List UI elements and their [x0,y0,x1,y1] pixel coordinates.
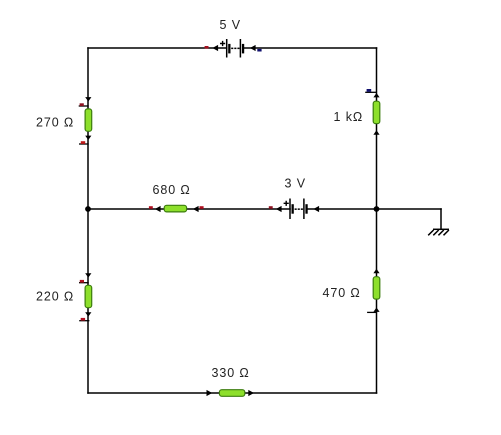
current arrow R220 top (down) [85,273,91,277]
wire left middle [87,131,89,286]
pin tick R270 bottom [79,143,89,145]
probe mark blue R1k top [367,89,372,92]
current arrow R270 bottom (down) [85,136,91,140]
probe mark red top wire [205,46,209,49]
wire ground stub [440,209,442,229]
current arrow top-right (left) [250,45,256,51]
resistor 220 ohm [85,285,92,307]
current arrow 680 right (left) [193,206,199,212]
wire top-left segment [88,47,227,49]
svg-text:5 V: 5 V [220,18,241,32]
current arrow 330 right (right) [248,390,254,396]
current arrow 330 left (right) [207,390,213,396]
ground [428,229,449,235]
svg-text:1 kΩ: 1 kΩ [334,110,364,124]
resistor 470 ohm [373,277,380,299]
node A junction left (88,209) [85,206,91,212]
resistor 1k ohm [373,101,380,123]
current arrow 3V left (left) [276,206,282,212]
resistor 680 ohm [164,205,186,212]
probe mark red R220 bottom [81,318,85,321]
current arrow R220 bottom (down) [85,312,91,316]
svg-text:680 Ω: 680 Ω [153,183,191,197]
current arrow R470 top (up) [373,269,379,273]
probe mark red R220 top [80,280,84,283]
wire middle branch left [88,208,165,210]
svg-text:220 Ω: 220 Ω [36,290,74,304]
svg-text:3 V: 3 V [285,177,306,191]
probe mark red R270 top [80,103,84,106]
current arrow R470 bottom (up) [373,308,379,312]
probe mark red R270 bottom [81,141,85,144]
pin tick R1k top [365,91,377,93]
probe mark red 680 right [200,206,204,209]
svg-text:470 Ω: 470 Ω [323,286,361,300]
svg-text:270 Ω: 270 Ω [36,116,74,130]
wire bottom-left segment [88,392,220,394]
node B junction right (376.5,209) [374,206,380,212]
resistor 330 ohm [219,390,244,397]
current arrow R1k top (up) [373,93,379,97]
probe mark blue top wire [257,49,261,52]
current arrow 680 left (left) [155,206,161,212]
wire right upper [376,48,378,102]
pin tick R470 bottom [367,311,377,313]
wire bottom-right segment [245,392,377,394]
wire right middle [376,124,378,278]
wire left lower [87,308,89,394]
svg-text:330 Ω: 330 Ω [212,366,250,380]
wire middle branch center [186,208,290,210]
probe mark red 3V left [269,206,273,209]
wire right lower [376,299,378,393]
wire middle branch right [308,208,441,210]
resistor 270 ohm [85,109,92,131]
current arrow R1k bottom (up) [373,130,379,134]
pin tick R220 bottom [79,320,89,322]
current arrow 3V right (left) [313,206,319,212]
current arrow R270 top (down) [85,97,91,101]
battery V2 3V [284,199,308,220]
battery V1 5V [220,39,244,58]
wire top-right segment [244,47,377,49]
pin tick R270 top [79,105,89,107]
pin tick R220 top [79,282,89,284]
wire left upper [87,48,89,110]
current arrow top-left (left) [212,45,218,51]
probe mark red 680 left [149,206,153,209]
